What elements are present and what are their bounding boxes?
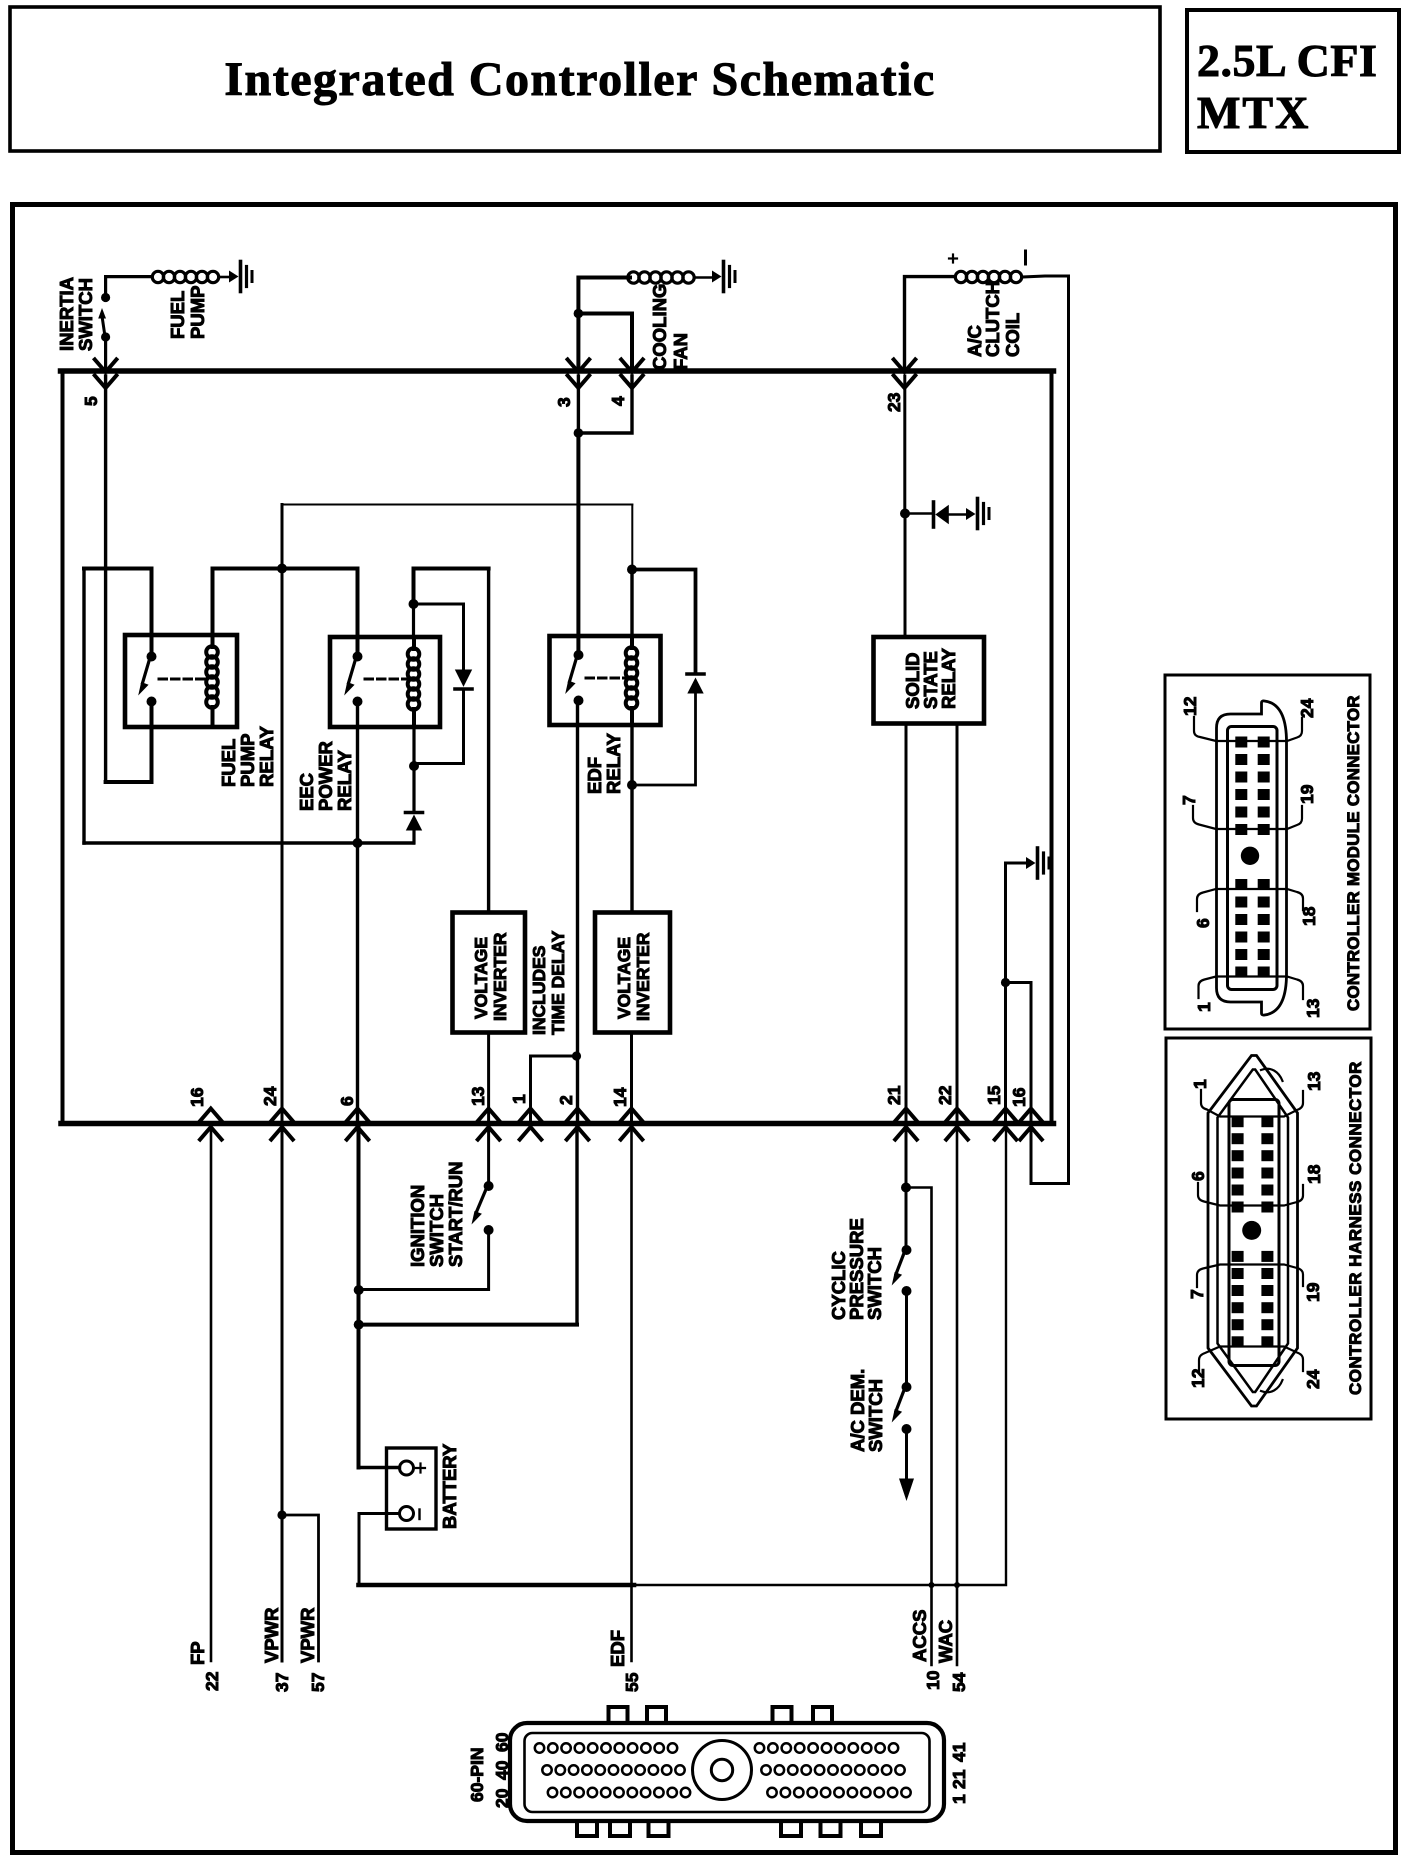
svg-text:24: 24 <box>1303 1369 1323 1389</box>
EDF relay coil <box>626 636 638 725</box>
svg-text:55: 55 <box>622 1672 642 1692</box>
controller right boundary <box>1050 371 1054 1124</box>
svg-text:VPWR: VPWR <box>261 1608 282 1664</box>
battery negative terminal <box>400 1507 420 1521</box>
svg-text:7: 7 <box>1187 1289 1207 1299</box>
node: pin 15-16 ground tie <box>1001 978 1010 987</box>
wire: cooling fan feed corner <box>578 278 630 314</box>
node: ignition return junction <box>354 1285 364 1295</box>
EDF relay actuation dashed link <box>586 677 624 680</box>
J3 index dot <box>1242 1221 1261 1240</box>
wire: battery positive feed <box>359 1466 400 1469</box>
inertia switch contacts and blade <box>98 293 110 342</box>
wire: fan junction to pin 4 <box>578 314 632 369</box>
pin 1 arrow <box>520 1109 542 1140</box>
svg-text:1: 1 <box>1194 1002 1214 1012</box>
svg-text:12: 12 <box>1188 1368 1208 1388</box>
svg-text:RELAY: RELAY <box>603 732 624 794</box>
A/C clutch coil L2 <box>955 271 1021 282</box>
J3 leader pins 7-19 <box>1197 1265 1303 1288</box>
svg-text:7: 7 <box>1179 795 1199 805</box>
svg-text:FP: FP <box>187 1641 208 1665</box>
harness connector J3 body <box>1208 1056 1298 1407</box>
pin 6 arrow <box>347 1109 369 1140</box>
wire: EEC output node horizontal <box>84 841 414 844</box>
ground: controller internal <box>1026 848 1049 878</box>
wire: ground rail thin segment to pin 15 <box>634 1126 1006 1585</box>
svg-text:16: 16 <box>187 1087 207 1107</box>
wire: pin 16 to FP terminal <box>210 1126 213 1661</box>
wire: EEC coil top to coil <box>412 604 415 637</box>
voltage inverter U3 box <box>595 913 670 1033</box>
label CYCLIC PRESSURE SWITCH <box>828 1218 885 1320</box>
wire: VPWR branch to terminal 57 <box>282 1515 319 1661</box>
svg-text:10: 10 <box>923 1670 943 1690</box>
svg-text:ACCS: ACCS <box>909 1610 930 1662</box>
svg-text:4: 4 <box>608 396 628 406</box>
J2 leader pins 1-13 <box>1199 977 1304 1000</box>
svg-text:41: 41 <box>949 1742 969 1762</box>
svg-text:EDF: EDF <box>607 1630 628 1667</box>
svg-text:INVERTER: INVERTER <box>633 932 653 1021</box>
battery BT1 box <box>387 1448 437 1529</box>
EDF relay K3 box <box>550 636 661 725</box>
node: EEC coil top <box>409 599 419 609</box>
wire: pins 3 and 4 merge below bus <box>578 376 632 433</box>
svg-text:54: 54 <box>949 1672 969 1692</box>
svg-text:60-PIN: 60-PIN <box>467 1748 487 1802</box>
svg-text:PUMP: PUMP <box>187 286 208 339</box>
svg-text:VPWR: VPWR <box>297 1608 318 1664</box>
polarity plus mark <box>949 255 957 263</box>
wire: pin 6 battery feed down <box>357 1126 361 1468</box>
wire: EEC switch output down to pin 6 <box>356 702 359 1121</box>
wire: A/C demand switch output <box>905 1429 908 1480</box>
node: EEC coil bottom junction <box>409 761 419 771</box>
wire: pin 21 down to switches <box>905 1126 908 1250</box>
diode D1 <box>455 670 472 690</box>
J3 pin squares right column <box>1261 1116 1273 1127</box>
wire: pin 13 to ignition switch <box>487 1126 490 1186</box>
pin 24 arrow <box>271 1109 293 1140</box>
fuel pump coil L1 <box>152 271 228 282</box>
solid state relay U1 box <box>874 637 985 724</box>
label A/C CLUTCH COIL <box>964 281 1023 357</box>
J1 pin holes right block <box>755 1743 911 1797</box>
EEC relay actuation dashed link <box>365 678 406 681</box>
wire: ground rail thick segment <box>359 1583 635 1588</box>
label A/C DEM. SWITCH <box>847 1369 886 1452</box>
wire: U3 to pin 14 <box>630 1033 633 1121</box>
svg-text:INERTIA: INERTIA <box>56 277 77 351</box>
J3 pin squares left column <box>1232 1116 1244 1127</box>
node: VPWR tap at pin 24 line <box>277 564 287 574</box>
wire: VPWR bridge drop to EDF coil <box>631 505 633 570</box>
wire: inertia switch down to pin 5 <box>104 337 107 368</box>
svg-text:EEC: EEC <box>296 773 317 811</box>
J2 pin squares right column <box>1258 737 1270 748</box>
pin 4 arrow <box>621 360 643 389</box>
svg-text:18: 18 <box>1304 1164 1324 1184</box>
fuel pump relay K1 box <box>125 635 237 727</box>
EDF relay switch contacts and blade <box>565 650 583 706</box>
wire: ignition switch return to pin 6 line <box>359 1230 489 1290</box>
node: EDF coil bottom junction <box>627 780 637 790</box>
svg-text:SWITCH: SWITCH <box>75 278 96 351</box>
svg-text:FUEL: FUEL <box>167 291 188 339</box>
wire: EDF coil top to coil <box>630 570 633 637</box>
FP relay actuation dashed link <box>159 678 204 681</box>
J3 leader pins 12-24 <box>1199 1347 1303 1373</box>
svg-text:SWITCH: SWITCH <box>865 1379 886 1452</box>
wire: pin 15 to internal ground <box>1006 863 1027 1120</box>
J1 pin holes left block <box>535 1743 690 1797</box>
svg-text:RELAY: RELAY <box>938 647 959 709</box>
pin 15 arrow <box>995 1109 1017 1140</box>
wire: EEC switch feed from VPWR rail <box>356 569 360 657</box>
node: ACCS crossing mark <box>929 1582 935 1588</box>
label EDF RELAY <box>584 732 624 794</box>
label VOLTAGE INVERTER U2 <box>471 932 510 1021</box>
wire: inertia switch to fuel pump coil <box>106 277 152 297</box>
wire: EEC coil bottom down <box>412 727 415 811</box>
svg-text:SWITCH: SWITCH <box>426 1194 447 1267</box>
J2 index dot <box>1241 847 1259 865</box>
controller module connector box <box>1165 675 1370 1029</box>
pin 23 arrow <box>894 360 916 389</box>
wire: branch to EDF diode D4 <box>632 570 696 673</box>
controller bottom bus <box>61 1121 1054 1127</box>
label IGNITION SWITCH START/RUN <box>407 1161 466 1267</box>
EEC power relay K2 box <box>330 637 440 727</box>
svg-text:19: 19 <box>1303 1282 1323 1302</box>
label COOLING FAN <box>649 284 691 370</box>
FP relay switch contacts and blade <box>138 652 156 707</box>
svg-text:2.5L CFI: 2.5L CFI <box>1197 35 1377 86</box>
svg-text:14: 14 <box>610 1087 630 1107</box>
wire: A/C clutch coil feed <box>905 277 956 368</box>
pin 22 arrow <box>946 1109 968 1140</box>
diode D4 <box>687 674 704 694</box>
svg-text:5: 5 <box>81 396 101 406</box>
pin 16 arrow (right) <box>1020 1109 1042 1140</box>
svg-text:POWER: POWER <box>315 741 336 811</box>
J1 bottom tabs <box>577 1821 881 1836</box>
wire: EDF coil bottom down to voltage inverter 2 <box>630 725 633 913</box>
engine label box <box>1187 10 1399 152</box>
wire: left loop down to EEC output node <box>82 569 85 844</box>
svg-text:INCLUDES: INCLUDES <box>529 946 549 1035</box>
svg-text:24: 24 <box>260 1086 280 1106</box>
diode D2 <box>406 813 423 831</box>
label INERTIA SWITCH <box>56 277 96 351</box>
wire: link pin 6 to pin 2 <box>359 1323 577 1327</box>
wire: SSR output 1 to pin 21 <box>905 724 908 1121</box>
svg-text:CONTROLLER MODULE CONNECTOR: CONTROLLER MODULE CONNECTOR <box>1344 695 1363 1011</box>
svg-text:VOLTAGE: VOLTAGE <box>471 937 491 1019</box>
wire: battery negative to ground rail <box>359 1514 400 1586</box>
wire: EDF switch output down to pin 2 <box>576 701 579 1121</box>
battery positive terminal <box>400 1461 426 1475</box>
svg-text:1: 1 <box>509 1094 529 1104</box>
svg-text:21: 21 <box>949 1769 969 1789</box>
svg-text:INVERTER: INVERTER <box>490 932 510 1021</box>
arrow: continues to A/C circuit <box>899 1479 914 1502</box>
svg-text:EDF: EDF <box>584 757 605 794</box>
controller top bus <box>61 368 1054 374</box>
svg-text:15: 15 <box>984 1085 1004 1105</box>
node: SSR feed diode tap <box>900 509 910 519</box>
svg-text:VOLTAGE: VOLTAGE <box>614 937 634 1019</box>
svg-text:16: 16 <box>1009 1087 1029 1107</box>
wire: D2 anode to node rail <box>412 831 415 844</box>
wire: ACCS branch line <box>906 1188 932 1666</box>
60-pin connector J1 body <box>510 1723 944 1821</box>
svg-text:20: 20 <box>492 1788 512 1808</box>
wire: U2 to pin 13 <box>487 1033 490 1121</box>
svg-text:RELAY: RELAY <box>334 749 355 811</box>
wire: FP relay switch feed from left loop <box>84 569 152 657</box>
wire: FP relay switch output down <box>150 702 154 783</box>
pin 14 arrow <box>621 1109 643 1140</box>
svg-text:Integrated Controller Schema: Integrated Controller Schematic <box>224 53 935 106</box>
J3 leader pins 1-13 <box>1201 1090 1303 1117</box>
wire: VPWR bridge over relays <box>282 504 632 506</box>
pin 13 arrow <box>478 1109 500 1140</box>
svg-text:40: 40 <box>492 1760 512 1780</box>
svg-text:TIME DELAY: TIME DELAY <box>548 930 568 1035</box>
svg-text:START/RUN: START/RUN <box>445 1161 466 1267</box>
svg-text:24: 24 <box>1297 698 1317 718</box>
pin 16 arrow (left) <box>200 1109 222 1140</box>
svg-text:FUEL: FUEL <box>218 739 239 787</box>
svg-text:COOLING: COOLING <box>649 284 670 370</box>
svg-text:BATTERY: BATTERY <box>439 1443 460 1529</box>
polarity minus mark <box>1024 251 1027 264</box>
svg-text:18: 18 <box>1299 906 1319 926</box>
J2 leader pins 12-24 <box>1194 717 1302 741</box>
wire: pin 16 tie to ground node <box>1006 983 1032 1121</box>
svg-text:57: 57 <box>308 1673 328 1692</box>
pin 2 arrow <box>567 1109 589 1140</box>
wire: VPWR rail segment to EEC switch <box>213 567 358 571</box>
svg-text:FAN: FAN <box>670 333 691 370</box>
controller harness connector box <box>1166 1038 1371 1419</box>
svg-text:13: 13 <box>468 1086 488 1106</box>
title box <box>10 7 1160 151</box>
svg-text:23: 23 <box>884 392 904 412</box>
wire: pin 1 stub loop <box>531 1056 576 1120</box>
module connector J2 body <box>1217 701 1287 1015</box>
node: cooling fan junction <box>574 309 584 319</box>
svg-text:IGNITION: IGNITION <box>407 1185 428 1267</box>
svg-text:12: 12 <box>1180 696 1200 716</box>
FP relay coil <box>206 635 218 727</box>
svg-text:2: 2 <box>556 1095 576 1105</box>
svg-text:13: 13 <box>1304 1071 1324 1091</box>
label INCLUDES TIME DELAY <box>529 930 568 1035</box>
svg-text:RELAY: RELAY <box>256 725 277 787</box>
label EEC POWER RELAY <box>296 741 355 811</box>
wire: pin 16 loop to A/C coil return <box>1031 1126 1069 1184</box>
wire: pin 24 VPWR vertical <box>281 505 284 1662</box>
svg-text:3: 3 <box>554 397 574 407</box>
A/C demand switch S3 <box>892 1382 912 1434</box>
ground: fuel pump <box>229 262 252 292</box>
cooling fan coil M1 <box>628 272 712 283</box>
wire: pin 2 drop <box>575 1126 578 1325</box>
node: VPWR branch <box>277 1510 286 1519</box>
svg-text:6: 6 <box>1188 1171 1208 1181</box>
node: WAC crossing mark <box>954 1582 960 1588</box>
node: ACCS branch <box>901 1183 911 1193</box>
wire: pin 14 to EDF terminal <box>630 1126 633 1661</box>
wire: A/C coil return down right side <box>1022 276 1069 1184</box>
diode D3 <box>934 502 967 527</box>
node: pin 1 tap on EDF output <box>572 1051 581 1060</box>
J3 claw bottom <box>1261 1380 1283 1392</box>
label FUEL PUMP RELAY <box>218 725 277 787</box>
svg-text:22: 22 <box>935 1085 955 1105</box>
wire: pin 5 line down left side <box>104 376 107 782</box>
label VOLTAGE INVERTER U3 <box>614 932 653 1021</box>
svg-text:CLUTCH: CLUTCH <box>982 281 1003 357</box>
J2 leader pins 7-19 <box>1193 806 1302 829</box>
wire: tap to diode D3 <box>905 512 932 515</box>
pin 21 arrow <box>895 1109 917 1140</box>
wire: inertia line to FP relay switch output <box>106 780 152 784</box>
label FUEL PUMP <box>167 286 208 339</box>
wire: between switches <box>905 1291 908 1387</box>
EEC relay coil <box>408 637 420 727</box>
J2 leader pins 6-18 <box>1197 889 1303 911</box>
controller left boundary <box>61 371 65 1124</box>
svg-text:21: 21 <box>884 1085 904 1105</box>
wire: pin 23 down to SSR <box>903 376 906 637</box>
node: pin 2 link junction <box>354 1320 364 1330</box>
pin 5 arrow <box>95 360 117 389</box>
svg-text:22: 22 <box>202 1671 222 1691</box>
wire: SSR output 2 to pin 22 <box>956 724 959 1121</box>
svg-text:6: 6 <box>1193 918 1213 928</box>
cyclic pressure switch S2 <box>892 1245 912 1296</box>
J2 pin squares left column <box>1235 737 1247 748</box>
ignition switch S1 contacts and blade <box>472 1181 494 1235</box>
J3 leader pins 6-18 <box>1198 1183 1303 1206</box>
svg-text:MTX: MTX <box>1197 87 1310 138</box>
node: pins 3-4 merge <box>574 428 584 438</box>
wire: FP coil top to VPWR rail <box>211 569 215 636</box>
node: EDF coil top <box>627 565 637 575</box>
label SOLID STATE RELAY <box>902 647 959 709</box>
wire: VPWR rail down to voltage inverter 1 <box>487 569 490 913</box>
pin 3 arrow <box>568 360 590 389</box>
svg-text:1: 1 <box>1190 1079 1210 1089</box>
svg-text:WAC: WAC <box>935 1620 956 1663</box>
wire: fan junction to pin 3 <box>576 314 580 369</box>
wire: D4 anode down to EDF coil bottom node <box>632 694 696 786</box>
svg-text:CONTROLLER HARNESS CONNECTOR: CONTROLLER HARNESS CONNECTOR <box>1346 1061 1365 1395</box>
wire: fan node down to EDF relay switch <box>576 433 580 652</box>
ground: cooling fan <box>712 262 735 292</box>
svg-text:19: 19 <box>1297 784 1317 804</box>
svg-text:60: 60 <box>492 1732 512 1752</box>
svg-text:37: 37 <box>272 1673 292 1692</box>
wire: EEC coil top node riser <box>414 569 489 605</box>
svg-text:6: 6 <box>337 1096 357 1106</box>
wire: branch to diode D1 <box>414 604 464 668</box>
svg-text:13: 13 <box>1303 998 1323 1018</box>
svg-text:PUMP: PUMP <box>237 734 258 787</box>
J1 top tabs <box>609 1707 833 1723</box>
J3 claw top <box>1261 1069 1283 1081</box>
svg-text:1: 1 <box>949 1794 969 1804</box>
voltage inverter U2 box <box>453 913 526 1033</box>
ground: SSR feed clamp <box>966 499 989 529</box>
svg-text:COIL: COIL <box>1002 313 1023 357</box>
wire: pin 22 to WAC terminal <box>956 1126 959 1665</box>
node: EEC output joins node rail <box>353 838 363 848</box>
J1 center bolt hole <box>693 1741 752 1800</box>
wire: D1 cathode to EEC coil bottom node <box>415 691 464 764</box>
EEC relay switch contacts and blade <box>344 652 362 707</box>
svg-text:SWITCH: SWITCH <box>864 1247 885 1320</box>
